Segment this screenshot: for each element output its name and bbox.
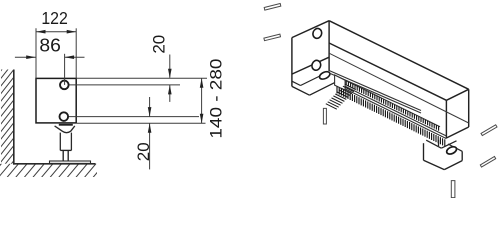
svg-text:20: 20 — [134, 142, 153, 161]
svg-text:140 - 280: 140 - 280 — [207, 59, 225, 139]
svg-text:122: 122 — [41, 8, 68, 28]
svg-text:86: 86 — [39, 36, 61, 56]
svg-text:20: 20 — [149, 35, 168, 54]
